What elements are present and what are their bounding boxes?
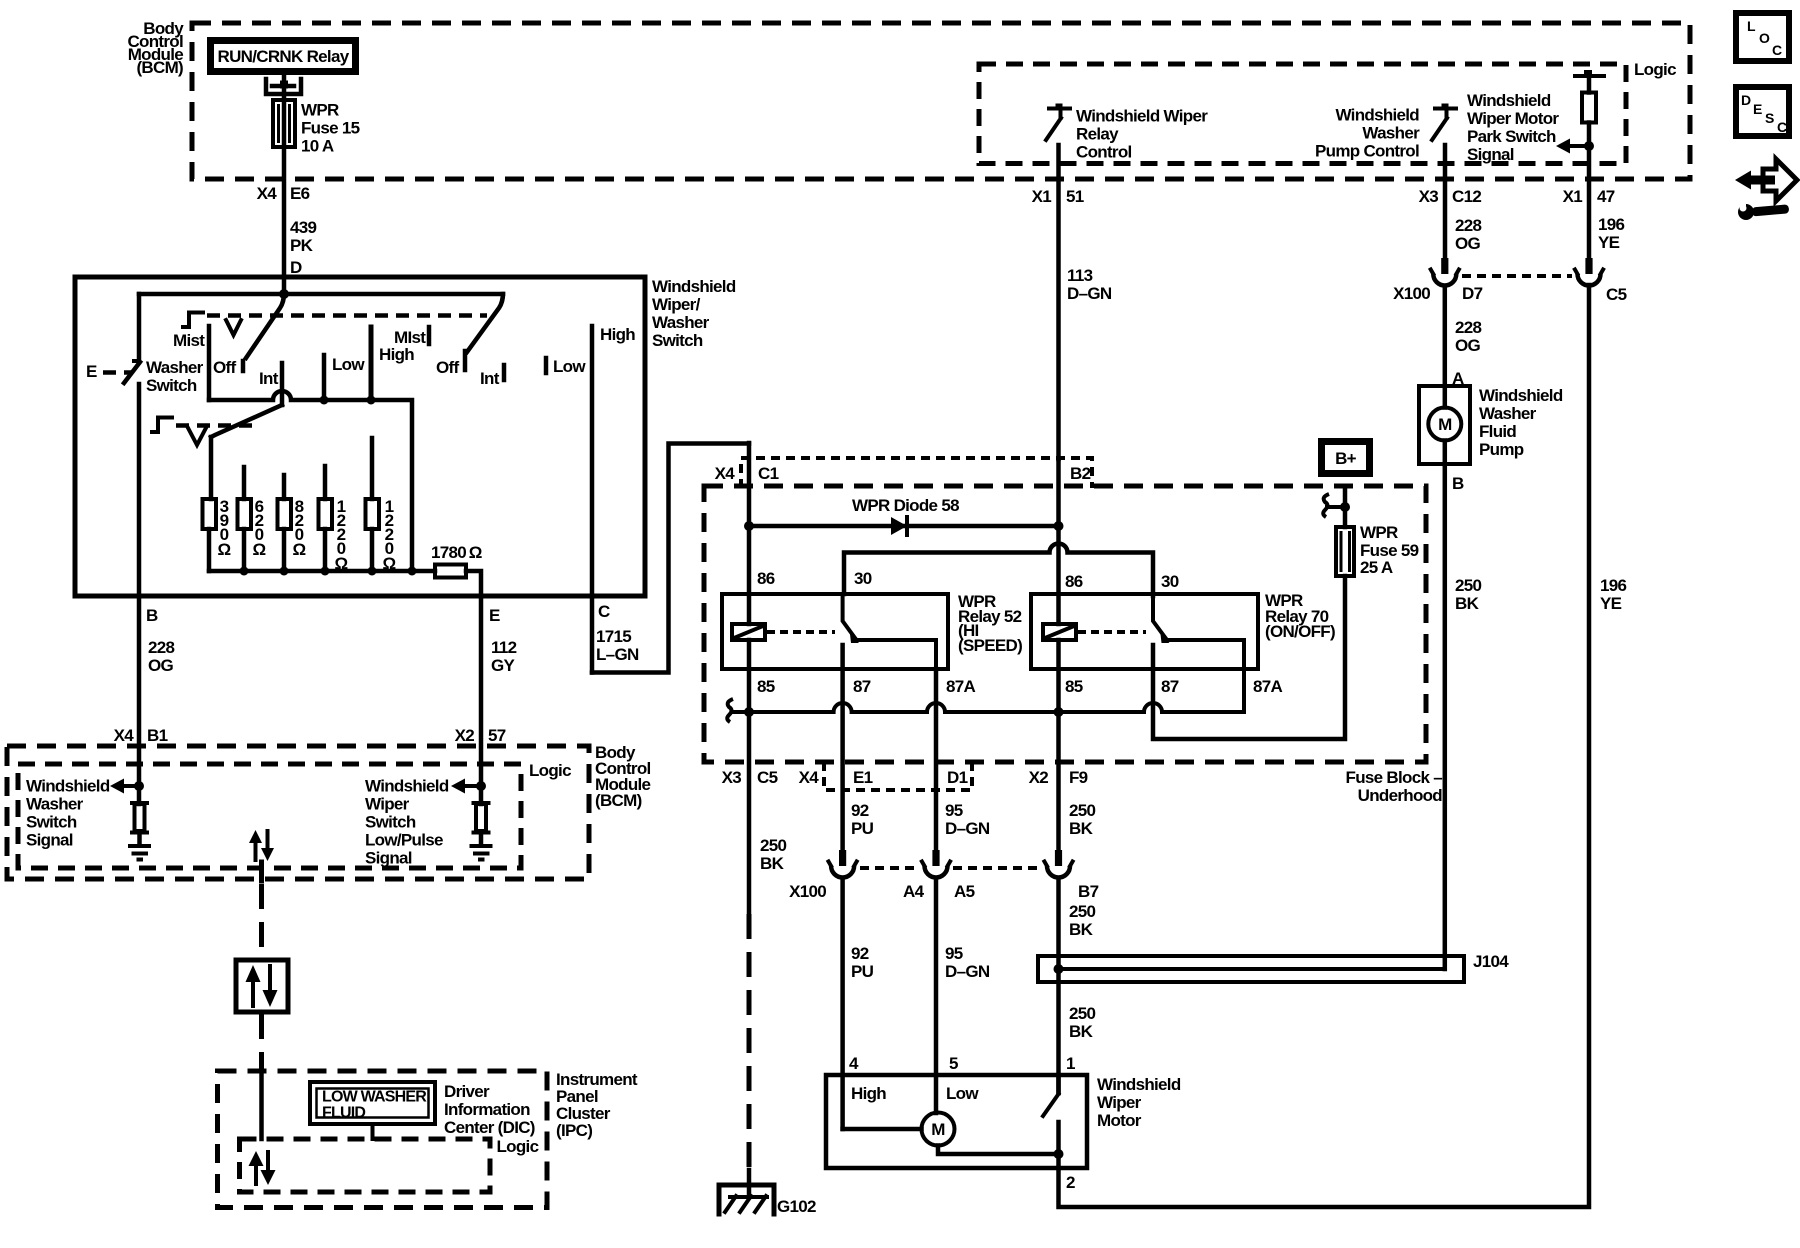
svg-text:(ON/OFF): (ON/OFF)	[1265, 622, 1335, 641]
svg-text:Signal: Signal	[26, 831, 73, 850]
wire to ground G102 (dashed)	[747, 914, 752, 1170]
svg-text:A4: A4	[903, 882, 925, 901]
RUN/CRNK Relay	[211, 41, 356, 72]
svg-text:250: 250	[1069, 902, 1096, 921]
svg-text:30: 30	[854, 569, 872, 588]
svg-text:Windshield: Windshield	[652, 277, 736, 296]
svg-text:BK: BK	[1069, 819, 1094, 838]
svg-text:YE: YE	[1598, 233, 1620, 252]
svg-text:Pump Control: Pump Control	[1315, 142, 1419, 161]
wire C output to fuse block (1715 L-GN)	[592, 444, 749, 673]
svg-text:Driver: Driver	[444, 1082, 490, 1101]
svg-text:92: 92	[851, 801, 869, 820]
wire to E output	[466, 571, 481, 804]
svg-text:Signal: Signal	[365, 849, 412, 868]
switch pole1 arm (from D)	[246, 294, 284, 358]
svg-text:X4: X4	[799, 768, 820, 787]
svg-text:95: 95	[945, 944, 963, 963]
svg-text:Windshield: Windshield	[1467, 91, 1551, 110]
wire 228 OG pump control	[1443, 145, 1448, 258]
svg-text:10 A: 10 A	[301, 137, 334, 156]
svg-text:M: M	[931, 1120, 945, 1139]
module box Fuse Block - Underhood	[704, 486, 1426, 762]
svg-text:Underhood: Underhood	[1358, 786, 1443, 805]
wire 250 BK (pump to J104)	[1443, 464, 1448, 969]
svg-text:Low/Pulse: Low/Pulse	[365, 831, 443, 850]
wire 228 OG (D7 to pump)	[1443, 286, 1448, 386]
serial data link box	[236, 960, 288, 1012]
svg-text:OG: OG	[148, 656, 174, 675]
svg-text:Logic: Logic	[497, 1137, 539, 1156]
contact Off pole1	[207, 326, 212, 400]
svg-text:(BCM): (BCM)	[595, 791, 642, 810]
module box Body Control Module (BCM) top	[192, 23, 1690, 179]
icon DESC box	[1736, 87, 1789, 136]
relay 70 armature 30	[1153, 596, 1166, 638]
svg-text:Switch: Switch	[26, 813, 77, 832]
wire B2 to relay 70 coil	[1056, 459, 1061, 624]
svg-text:D1: D1	[947, 768, 968, 787]
svg-text:4: 4	[849, 1054, 859, 1073]
svg-text:E: E	[1753, 101, 1762, 117]
svg-text:L–GN: L–GN	[596, 645, 639, 664]
svg-text:Off: Off	[213, 358, 236, 377]
svg-text:Fuse Block –: Fuse Block –	[1346, 768, 1443, 787]
svg-text:High: High	[600, 325, 635, 344]
relay 52 armature 30	[843, 596, 855, 638]
connector X100 A4	[839, 850, 846, 866]
svg-text:87A: 87A	[946, 677, 976, 696]
wire relay70 85	[1056, 640, 1061, 712]
resistor 390 ohm	[209, 437, 214, 499]
wire RUN/CRNK relay to switch (439 PK)	[282, 75, 287, 296]
relay 52 contact 87A	[856, 640, 936, 669]
connector X4 E1 D1 row	[824, 762, 972, 790]
svg-text:GY: GY	[491, 656, 516, 675]
switch pole3 mechanical link	[152, 418, 172, 433]
wire relay70 87 to fuse 59	[1153, 576, 1345, 739]
svg-text:X3: X3	[1419, 187, 1439, 206]
svg-text:FLUID: FLUID	[322, 1105, 365, 1122]
svg-text:B2: B2	[1070, 464, 1091, 483]
svg-text:YE: YE	[1600, 594, 1622, 613]
wire pin30 rail	[844, 544, 1153, 597]
svg-text:Control: Control	[1076, 143, 1132, 162]
svg-text:C: C	[1777, 119, 1787, 135]
svg-text:85: 85	[757, 677, 775, 696]
svg-text:D7: D7	[1462, 284, 1483, 303]
svg-text:Washer: Washer	[1479, 404, 1537, 423]
resistor 1780 ohm	[435, 565, 466, 578]
svg-text:BK: BK	[760, 854, 785, 873]
svg-text:250: 250	[1069, 1004, 1096, 1023]
svg-text:Washer: Washer	[1362, 124, 1420, 143]
svg-text:D–GN: D–GN	[945, 819, 990, 838]
svg-text:BK: BK	[1069, 920, 1094, 939]
svg-text:Signal: Signal	[1467, 145, 1514, 164]
svg-text:RUN/CRNK Relay: RUN/CRNK Relay	[218, 47, 350, 66]
svg-text:C12: C12	[1452, 187, 1481, 206]
svg-text:E: E	[489, 606, 500, 625]
wire relay52 85/C5 to ground	[747, 712, 752, 914]
svg-text:WPR: WPR	[301, 101, 339, 120]
diode WPR Diode 58	[749, 524, 1059, 529]
wire 92 PU (A4 to motor)	[840, 878, 845, 1129]
svg-text:(SPEED): (SPEED)	[958, 636, 1022, 655]
resistor wiper switch signal	[474, 801, 489, 805]
svg-text:228: 228	[1455, 216, 1482, 235]
relay WPR Relay 70 (ON/OFF) box	[1031, 594, 1258, 669]
svg-text:Windshield: Windshield	[365, 777, 449, 796]
contact High pole2 to C output	[590, 326, 595, 673]
svg-text:1715: 1715	[596, 627, 631, 646]
svg-text:228: 228	[148, 638, 175, 657]
relay 70 coil	[1043, 624, 1076, 640]
switch pole2 contacts (Mist/Off/Int/Low/High ticks)	[427, 327, 432, 344]
svg-text:87: 87	[853, 677, 871, 696]
svg-text:Int: Int	[259, 369, 279, 388]
svg-text:X4: X4	[715, 464, 736, 483]
wire into IPC	[259, 1071, 264, 1139]
svg-text:X4: X4	[114, 726, 135, 745]
serial data arrows (BCM)	[249, 830, 262, 843]
svg-text:Low: Low	[332, 355, 365, 374]
serial data arrows (IPC)	[249, 1151, 264, 1166]
terminal symbol under RUN/CRNK relay	[266, 79, 301, 94]
svg-text:E1: E1	[853, 768, 873, 787]
svg-text:Ω: Ω	[293, 540, 306, 559]
svg-text:228: 228	[1455, 318, 1482, 337]
svg-text:Switch: Switch	[652, 331, 703, 350]
icon wrench	[1737, 200, 1789, 220]
svg-text:Logic: Logic	[1634, 60, 1676, 79]
svg-text:Mist: Mist	[173, 331, 205, 350]
svg-text:C: C	[598, 602, 610, 621]
module box Body Control Module (BCM) lower	[7, 746, 589, 879]
svg-text:2: 2	[1066, 1173, 1075, 1192]
component Windshield Washer Fluid Pump	[1419, 386, 1470, 464]
relay 70 contact 87A	[1167, 640, 1245, 712]
fuse WPR Fuse 15 10 A	[273, 100, 295, 147]
svg-text:Windshield Wiper: Windshield Wiper	[1076, 107, 1208, 126]
svg-text:X2: X2	[1029, 768, 1049, 787]
resistor park switch pull-up	[1582, 93, 1596, 123]
svg-text:C: C	[1772, 42, 1782, 58]
svg-text:B: B	[1452, 474, 1464, 493]
svg-text:PK: PK	[290, 236, 314, 255]
ground BCM washer signal	[130, 844, 149, 848]
svg-text:57: 57	[488, 726, 506, 745]
svg-text:5: 5	[949, 1054, 958, 1073]
wire feed bus inside switch	[139, 292, 503, 297]
connector X100 D7	[1441, 258, 1448, 274]
svg-text:250: 250	[1455, 576, 1482, 595]
power B+ terminal	[1322, 442, 1370, 474]
svg-text:Pump: Pump	[1479, 440, 1524, 459]
svg-text:Wiper: Wiper	[1097, 1093, 1142, 1112]
svg-text:Switch: Switch	[365, 813, 416, 832]
wire relay52 87A to D1	[934, 669, 939, 850]
connector X4 C1 / B2 row	[741, 458, 1092, 488]
svg-text:PU: PU	[851, 962, 874, 981]
wire B+ feed	[1343, 489, 1348, 527]
svg-text:Windshield: Windshield	[1479, 386, 1563, 405]
svg-text:47: 47	[1597, 187, 1615, 206]
wire 250 BK (B7 to J104)	[1056, 878, 1061, 1093]
svg-text:250: 250	[760, 836, 787, 855]
wire park switch to 196 YE	[1059, 285, 1590, 1207]
resistor 620 ohm	[242, 467, 247, 499]
splice J104	[1038, 956, 1464, 982]
svg-text:E6: E6	[290, 184, 310, 203]
svg-text:C1: C1	[758, 464, 779, 483]
wire pole1 bus	[209, 391, 412, 571]
svg-text:250: 250	[1069, 801, 1096, 820]
display LOW WASHER FLUID	[310, 1082, 435, 1124]
svg-text:Washer: Washer	[652, 313, 710, 332]
svg-text:G102: G102	[777, 1197, 816, 1216]
svg-text:OG: OG	[1455, 336, 1481, 355]
motor M winding	[843, 1127, 922, 1132]
svg-text:Wiper Motor: Wiper Motor	[1467, 109, 1559, 128]
svg-text:OG: OG	[1455, 234, 1481, 253]
resistor 1220 ohm second	[370, 438, 375, 499]
wire relay52 85 to bus	[747, 640, 752, 712]
svg-text:X4: X4	[257, 184, 278, 203]
svg-text:WPR Diode 58: WPR Diode 58	[852, 496, 959, 515]
svg-text:Switch: Switch	[146, 376, 197, 395]
svg-text:B+: B+	[1335, 449, 1357, 468]
svg-text:Washer: Washer	[26, 795, 84, 814]
svg-text:30: 30	[1161, 572, 1179, 591]
svg-text:X3: X3	[722, 768, 742, 787]
wire C1 to relay 52 coil	[747, 443, 752, 624]
svg-text:MIst: MIst	[394, 328, 426, 347]
resistor 1220 ohm first	[323, 466, 328, 499]
svg-text:Low: Low	[553, 357, 586, 376]
component Windshield Wiper/Washer Switch box	[75, 277, 645, 596]
component Windshield Wiper Motor box	[826, 1075, 1087, 1168]
svg-text:C5: C5	[1606, 285, 1627, 304]
svg-text:Fuse 15: Fuse 15	[301, 119, 360, 138]
svg-text:(IPC): (IPC)	[556, 1121, 592, 1140]
wire resistor bottom bus	[209, 569, 435, 574]
svg-text:Center (DIC): Center (DIC)	[444, 1118, 535, 1137]
svg-text:High: High	[851, 1084, 886, 1103]
svg-text:BK: BK	[1069, 1022, 1094, 1041]
svg-text:Logic: Logic	[529, 761, 571, 780]
contact Low pole1	[322, 355, 327, 400]
svg-text:Park Switch: Park Switch	[1467, 127, 1556, 146]
washer switch blade	[124, 362, 140, 383]
svg-text:S: S	[1765, 110, 1774, 126]
switch pole1 mechanical link	[183, 313, 203, 328]
resistor 820 ohm	[282, 475, 287, 499]
svg-text:87: 87	[1161, 677, 1179, 696]
svg-text:1: 1	[1066, 1054, 1075, 1073]
svg-text:B1: B1	[147, 726, 168, 745]
svg-text:WPR: WPR	[1360, 523, 1398, 542]
switch pole2 arm	[467, 294, 503, 352]
svg-text:86: 86	[1065, 572, 1083, 591]
logic box (IPC)	[240, 1139, 491, 1192]
resistor washer switch signal	[132, 801, 147, 805]
svg-text:25 A: 25 A	[1360, 558, 1393, 577]
svg-text:Low: Low	[946, 1084, 979, 1103]
svg-text:B: B	[146, 606, 158, 625]
contact Int pole1	[280, 363, 285, 405]
connector X100 B7	[1055, 850, 1062, 866]
svg-text:Int: Int	[480, 369, 500, 388]
svg-text:112: 112	[491, 638, 517, 657]
svg-text:D–GN: D–GN	[1067, 284, 1112, 303]
svg-text:Ω: Ω	[253, 540, 266, 559]
svg-text:92: 92	[851, 944, 869, 963]
logic box (BCM lower)	[18, 764, 521, 868]
svg-text:X2: X2	[455, 726, 475, 745]
driver Windshield Wiper Relay Control	[1049, 107, 1070, 111]
svg-text:BK: BK	[1455, 594, 1480, 613]
wire 113 D-GN (relay control to B2)	[1056, 145, 1061, 459]
svg-text:95: 95	[945, 801, 963, 820]
svg-text:C5: C5	[757, 768, 778, 787]
svg-text:Windshield: Windshield	[1097, 1075, 1181, 1094]
svg-text:439: 439	[290, 218, 317, 237]
contact High pole1	[369, 327, 374, 400]
svg-text:86: 86	[757, 569, 775, 588]
connector X100 D7-C5 link dashes	[1462, 274, 1572, 278]
svg-text:Windshield: Windshield	[26, 777, 110, 796]
svg-text:F9: F9	[1069, 768, 1088, 787]
wire 250 BK (F9 to B7)	[1056, 712, 1061, 850]
svg-text:High: High	[379, 345, 414, 364]
arrow park switch signal input	[1570, 144, 1589, 148]
svg-text:87A: 87A	[1253, 677, 1283, 696]
wire washer switch to B output	[137, 384, 142, 804]
icon LOC box	[1736, 13, 1789, 61]
icon arrow	[1763, 159, 1797, 201]
svg-text:A5: A5	[954, 882, 975, 901]
svg-text:Wiper: Wiper	[365, 795, 410, 814]
svg-text:Wiper/: Wiper/	[652, 295, 701, 314]
switch pole3 arm (interval selector)	[211, 405, 282, 437]
svg-text:D–GN: D–GN	[945, 962, 990, 981]
fuse WPR Fuse 59 25 A	[1336, 527, 1354, 576]
logic box (BCM top)	[979, 64, 1626, 164]
svg-text:X100: X100	[789, 882, 826, 901]
connector X100 link dashes	[860, 866, 920, 870]
svg-text:L: L	[1747, 18, 1756, 34]
connector C5 (wiper motor)	[1585, 258, 1592, 274]
wire 95 D-GN (A5 to motor)	[934, 878, 939, 1113]
module box Instrument Panel Cluster (IPC)	[218, 1071, 548, 1208]
wire relay52 87 to E1	[840, 645, 845, 850]
svg-text:B7: B7	[1078, 882, 1099, 901]
svg-text:Relay: Relay	[1076, 125, 1119, 144]
svg-text:196: 196	[1598, 215, 1625, 234]
svg-text:LOW WASHER: LOW WASHER	[322, 1089, 427, 1106]
wire serial data	[259, 862, 264, 881]
ground BCM wiper signal	[472, 844, 491, 848]
node D junction	[279, 289, 289, 299]
svg-text:J104: J104	[1473, 952, 1509, 971]
washer switch contact upper	[137, 294, 142, 361]
svg-text:(BCM): (BCM)	[136, 58, 183, 77]
svg-text:Fluid: Fluid	[1479, 422, 1516, 441]
svg-text:X1: X1	[1563, 187, 1583, 206]
svg-text:D: D	[290, 258, 302, 277]
splice 85 ground bus	[734, 703, 1244, 712]
svg-text:D: D	[1741, 92, 1751, 108]
svg-text:Washer: Washer	[146, 358, 204, 377]
svg-text:M: M	[1438, 415, 1452, 434]
svg-text:PU: PU	[851, 819, 874, 838]
svg-text:51: 51	[1066, 187, 1084, 206]
svg-text:Information: Information	[444, 1100, 530, 1119]
relay WPR Relay 52 (HI SPEED) box	[722, 594, 948, 669]
svg-text:O: O	[1759, 30, 1770, 46]
svg-text:X1: X1	[1032, 187, 1052, 206]
svg-text:196: 196	[1600, 576, 1627, 595]
motor park switch	[1056, 1075, 1061, 1093]
svg-text:Off: Off	[436, 358, 459, 377]
svg-text:Ω: Ω	[218, 540, 231, 559]
svg-text:Windshield: Windshield	[1335, 106, 1419, 125]
svg-text:X100: X100	[1393, 284, 1430, 303]
svg-text:Motor: Motor	[1097, 1111, 1142, 1130]
svg-text:1780 Ω: 1780 Ω	[431, 543, 482, 562]
ground G102	[719, 1185, 774, 1214]
svg-text:85: 85	[1065, 677, 1083, 696]
connector X100 A5	[932, 850, 939, 866]
relay 52 coil	[732, 624, 765, 640]
svg-text:113: 113	[1067, 266, 1093, 285]
svg-text:E: E	[86, 362, 97, 381]
